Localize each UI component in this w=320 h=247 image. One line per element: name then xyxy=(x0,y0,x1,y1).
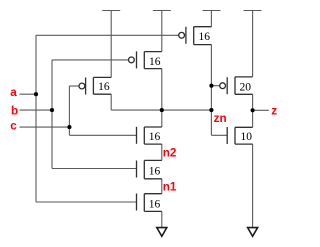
svg-text:16: 16 xyxy=(149,199,161,211)
svg-text:a: a xyxy=(10,86,17,99)
svg-text:n2: n2 xyxy=(163,146,177,159)
svg-text:b: b xyxy=(11,105,18,118)
svg-text:16: 16 xyxy=(149,166,161,178)
svg-text:10: 10 xyxy=(241,131,253,143)
svg-text:z: z xyxy=(271,105,277,118)
svg-text:16: 16 xyxy=(149,56,161,68)
svg-text:16: 16 xyxy=(198,31,210,43)
svg-text:16: 16 xyxy=(98,81,110,93)
svg-text:zn: zn xyxy=(214,112,227,125)
svg-text:20: 20 xyxy=(239,81,251,93)
svg-text:c: c xyxy=(10,120,17,133)
svg-text:n1: n1 xyxy=(163,180,177,193)
svg-text:16: 16 xyxy=(149,131,161,143)
